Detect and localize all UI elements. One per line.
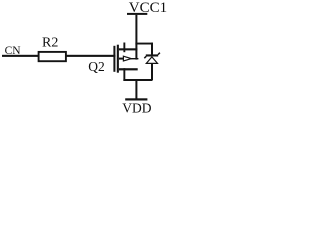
- svg-text:CN: CN: [5, 45, 22, 57]
- svg-text:Q2: Q2: [88, 59, 105, 74]
- svg-text:R2: R2: [42, 36, 58, 51]
- svg-text:VDD: VDD: [122, 101, 151, 116]
- svg-text:VCC1: VCC1: [129, 0, 167, 16]
